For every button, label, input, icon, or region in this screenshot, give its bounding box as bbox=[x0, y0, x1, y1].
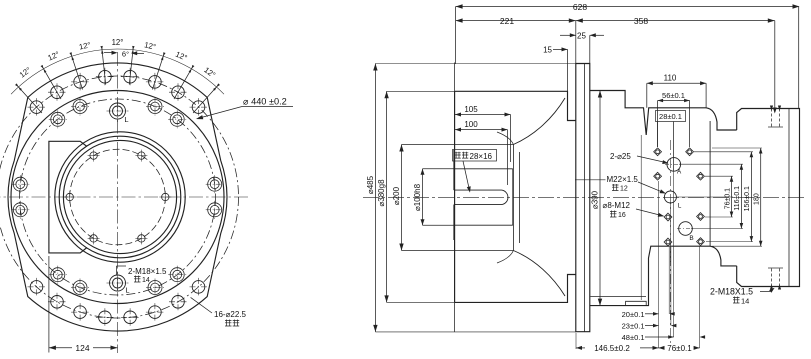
dimension 105 bbox=[455, 114, 511, 116]
central bolt circle dashed bbox=[70, 149, 166, 245]
svg-text:6°: 6° bbox=[122, 50, 129, 59]
dimension 124 at bottom bbox=[48, 256, 50, 353]
bolt circle dia440 centerline bbox=[0, 76, 239, 318]
svg-text:12: 12 bbox=[620, 186, 628, 193]
dimension 56 +-0.1 bbox=[658, 100, 690, 102]
svg-text:628: 628 bbox=[573, 2, 587, 12]
internal bore dia200 lines bbox=[455, 144, 514, 146]
6deg dimension bbox=[104, 52, 116, 54]
svg-text:⌀200: ⌀200 bbox=[392, 186, 401, 205]
svg-text:76±0.1: 76±0.1 bbox=[667, 344, 692, 353]
line from disc to M22 label bbox=[575, 179, 606, 181]
angular dimension arc bbox=[11, 49, 224, 94]
svg-text:20±0.1: 20±0.1 bbox=[622, 310, 645, 319]
svg-text:L: L bbox=[125, 286, 129, 295]
16-dia22.5 through hole label bbox=[191, 297, 212, 313]
6 small holes on central bolt circle bbox=[162, 193, 169, 200]
8 M12 screw ports diamonds bbox=[654, 148, 662, 156]
dim 146.5+-0.2 bbox=[576, 347, 585, 349]
dimension 110 bbox=[647, 82, 706, 84]
port B bbox=[679, 222, 693, 236]
svg-text:L: L bbox=[678, 203, 682, 210]
svg-text:180: 180 bbox=[754, 193, 761, 205]
svg-text:56±0.1: 56±0.1 bbox=[662, 91, 685, 100]
valve block front face edge bbox=[709, 121, 711, 246]
svg-text:221: 221 bbox=[500, 16, 514, 26]
dimension 628 bbox=[456, 6, 799, 8]
keyway slot 28x16 bbox=[454, 190, 508, 205]
svg-text:⌀380g8: ⌀380g8 bbox=[377, 179, 386, 207]
svg-text:28×16: 28×16 bbox=[470, 152, 493, 161]
angular dimension radiating lines 12deg pattern bbox=[17, 85, 42, 113]
dimension 25 disc width bbox=[560, 34, 576, 36]
vertical dims 76 116 156 180 bbox=[731, 176, 733, 217]
bottom extension lines bbox=[640, 135, 642, 300]
body dia380g8 outline with neck fillet bbox=[455, 91, 576, 120]
svg-text:⌀390: ⌀390 bbox=[591, 190, 600, 209]
svg-text:23±0.1: 23±0.1 bbox=[622, 322, 645, 331]
keyway boss rectangle on left bbox=[49, 141, 87, 253]
vertical centerline through L port bbox=[669, 140, 671, 262]
svg-text:14: 14 bbox=[142, 277, 150, 284]
svg-text:48±0.1: 48±0.1 bbox=[622, 333, 645, 342]
svg-text:110: 110 bbox=[664, 74, 677, 83]
16 through holes dia22.5 on bolt circle bbox=[30, 101, 43, 114]
12 threaded holes on inner bolt circle bbox=[148, 100, 162, 114]
svg-text:124: 124 bbox=[75, 343, 89, 353]
disc inner face line bbox=[583, 64, 585, 332]
svg-text:16-⌀22.5: 16-⌀22.5 bbox=[214, 310, 247, 319]
front view outer profile of flange disc bbox=[8, 63, 227, 331]
svg-text:25: 25 bbox=[577, 32, 586, 41]
svg-text:105: 105 bbox=[464, 105, 478, 114]
svg-text:B: B bbox=[689, 235, 693, 242]
dia485 dimension bbox=[374, 64, 376, 332]
svg-text:⌀ 440 ±0.2: ⌀ 440 ±0.2 bbox=[243, 97, 287, 107]
dim 76+-0.1 bottom bbox=[659, 346, 665, 350]
internal fillet curves at bore end bbox=[497, 132, 513, 145]
svg-text:14: 14 bbox=[741, 297, 749, 306]
side view main centerline bbox=[363, 196, 806, 198]
dimension 100 bbox=[455, 129, 508, 131]
dia380g8 dimension bbox=[386, 91, 388, 302]
dia200 dimension bbox=[401, 145, 403, 251]
svg-text:⌀100h8: ⌀100h8 bbox=[413, 183, 422, 211]
port L bbox=[664, 191, 676, 203]
internal taper curves to neck bbox=[513, 98, 565, 145]
valve housing block bbox=[590, 91, 737, 136]
end cap inner face line bbox=[788, 109, 790, 287]
svg-text:⌀8-M12: ⌀8-M12 bbox=[603, 201, 631, 210]
svg-text:146.5±0.2: 146.5±0.2 bbox=[594, 344, 630, 353]
extension lines to right dims bbox=[705, 175, 733, 177]
spigot circle dia380g8 bbox=[11, 91, 224, 304]
mounting flange disc bbox=[576, 64, 590, 332]
svg-text:2-M18×1.5: 2-M18×1.5 bbox=[128, 267, 167, 276]
central circles bbox=[55, 132, 185, 262]
svg-text:⌀485: ⌀485 bbox=[366, 175, 375, 194]
inner bolt circle centerline bbox=[20, 99, 216, 295]
dia380g8 extension lines bbox=[387, 90, 455, 92]
2-M18x1.5 depth14 label bottom bbox=[116, 266, 118, 276]
svg-text:12°: 12° bbox=[112, 38, 124, 47]
svg-text:2-⌀25: 2-⌀25 bbox=[610, 152, 631, 161]
svg-text:L: L bbox=[124, 115, 128, 124]
svg-text:M22×1.5: M22×1.5 bbox=[607, 175, 639, 184]
shaft bore dia100 with keyway slot bbox=[454, 168, 513, 170]
front view centerlines bbox=[0, 196, 249, 198]
svg-text:A: A bbox=[677, 169, 682, 176]
port A dia25 bbox=[667, 158, 681, 172]
2 M18x1.5 oil holes with L labels bbox=[110, 103, 126, 119]
svg-text:28±0.1: 28±0.1 bbox=[659, 112, 682, 121]
dimension 221 bbox=[456, 20, 576, 22]
svg-text:358: 358 bbox=[634, 16, 648, 26]
svg-text:76±0.1: 76±0.1 bbox=[724, 188, 731, 209]
dia390 dimension on housing face bbox=[599, 91, 601, 306]
svg-text:156±0.1: 156±0.1 bbox=[744, 186, 751, 211]
svg-text:116±0.1: 116±0.1 bbox=[734, 186, 741, 211]
svg-text:100: 100 bbox=[464, 120, 478, 129]
key label pingjian 28x16 bbox=[453, 150, 497, 162]
dia100h8 dimension bbox=[422, 169, 424, 225]
svg-text:2-M18X1.5: 2-M18X1.5 bbox=[710, 287, 753, 297]
dimension 358 bbox=[576, 20, 775, 22]
dimension 28 +-0.1 boxed bbox=[656, 111, 686, 122]
svg-text:16: 16 bbox=[618, 212, 626, 219]
end cap bbox=[737, 109, 800, 287]
M18 threaded holes on end cap dashed bbox=[771, 109, 773, 128]
dia440 leader and label bbox=[198, 107, 243, 119]
flange face vertical line bbox=[454, 63, 456, 332]
angular dimension arc arrows bbox=[15, 83, 19, 87]
housing bottom inner line and notch bbox=[590, 295, 646, 297]
svg-text:15: 15 bbox=[543, 46, 552, 55]
